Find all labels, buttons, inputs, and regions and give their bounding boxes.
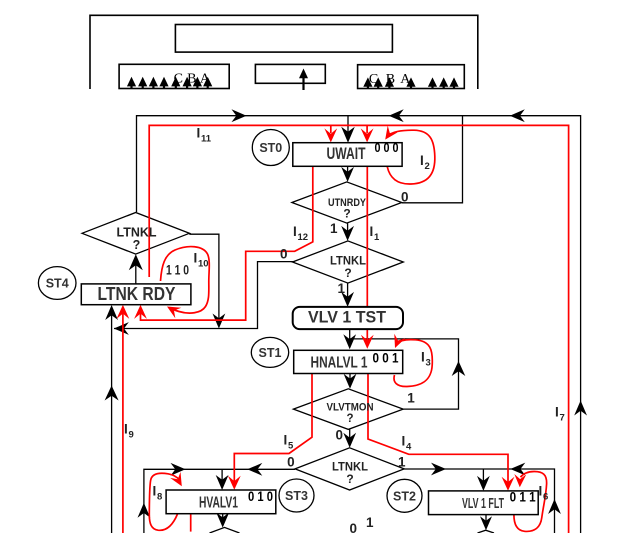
wire VLV1FLT to bottom diamond xyxy=(485,515,487,528)
svg-text:0: 0 xyxy=(280,247,288,262)
svg-text:2: 2 xyxy=(425,161,430,172)
svg-text:ST0: ST0 xyxy=(259,141,282,155)
wire VLVTMON 0 to LTNKL bottom xyxy=(349,429,351,445)
svg-text:A: A xyxy=(200,72,211,87)
partial diamond bottom-left xyxy=(210,527,240,533)
svg-text:B: B xyxy=(386,72,395,87)
state box HNALVL1 (ST1) xyxy=(294,350,403,373)
svg-text:I: I xyxy=(124,422,128,437)
svg-text:B: B xyxy=(187,72,196,87)
inner top register box xyxy=(175,25,392,53)
input port box right xyxy=(358,65,465,89)
decision LTNKL? (bottom) xyxy=(295,448,404,490)
svg-text:VLV 1 FLT: VLV 1 FLT xyxy=(462,496,504,512)
svg-text:?: ? xyxy=(346,413,353,425)
wire LTNKL2 1-branch to VLV1FLT with right riser xyxy=(404,469,554,533)
svg-text:1: 1 xyxy=(407,391,415,406)
svg-text:I: I xyxy=(421,350,425,365)
red I1 wire UWAIT to HNALVL1 xyxy=(366,145,368,340)
svg-text:HNALVL 1: HNALVL 1 xyxy=(311,355,368,372)
svg-text:12: 12 xyxy=(298,232,309,243)
input arrows right box xyxy=(363,77,458,88)
wire LTNKL2 0-branch to HVALV1 with left riser xyxy=(144,469,295,533)
red stub HVALV1 to bottom diamond xyxy=(190,514,192,532)
svg-text:1: 1 xyxy=(398,455,406,470)
svg-text:0: 0 xyxy=(401,190,409,205)
svg-text:0 0 1: 0 0 1 xyxy=(373,350,399,366)
svg-text:?: ? xyxy=(343,207,350,221)
svg-text:1: 1 xyxy=(374,232,380,243)
state circle ST2 xyxy=(387,479,422,512)
svg-text:0 0 0: 0 0 0 xyxy=(375,140,399,155)
state box UWAIT (ST0) xyxy=(293,143,402,167)
red I5 wire HNALVL1 to HVALV1 xyxy=(234,373,312,483)
svg-text:HVALV1: HVALV1 xyxy=(199,495,238,512)
svg-text:4: 4 xyxy=(406,442,412,453)
svg-text:6: 6 xyxy=(543,492,548,503)
svg-text:0: 0 xyxy=(336,428,344,443)
svg-text:?: ? xyxy=(133,238,141,252)
wire LTNK RDY up to LTNKL left xyxy=(135,257,137,284)
decision LTNKL? (left) xyxy=(82,213,189,255)
wire LTNKL 0-branch to LTNK RDY xyxy=(114,262,295,329)
wire UTNRDY 1 to LTNKL xyxy=(347,223,349,238)
svg-text:I: I xyxy=(284,433,288,448)
state circle ST3 xyxy=(279,479,314,512)
arrow I7 riser xyxy=(574,401,587,416)
svg-text:?: ? xyxy=(344,266,351,280)
wire top return bus with right-side riser xyxy=(137,116,581,533)
decision LTNKL? (center) xyxy=(293,241,404,283)
red I9 riser into LTNK RDY xyxy=(122,310,124,533)
wire UTNRDY 0-branch up to bus xyxy=(402,116,463,203)
input arrows left box xyxy=(127,77,212,89)
svg-text:10: 10 xyxy=(198,259,209,270)
svg-text:7: 7 xyxy=(560,413,565,424)
svg-text:ST2: ST2 xyxy=(393,489,416,503)
svg-text:I: I xyxy=(293,224,297,239)
state circle ST4 xyxy=(38,267,76,300)
partial diamond bottom-right xyxy=(478,530,495,533)
svg-text:8: 8 xyxy=(157,492,162,503)
wire LTNKL 1 to VLV1TST xyxy=(347,283,349,304)
svg-text:9: 9 xyxy=(129,430,134,441)
decision VLVTMON? xyxy=(293,389,403,430)
svg-text:ST4: ST4 xyxy=(46,277,69,291)
red drop into UWAIT (left) xyxy=(330,125,332,133)
svg-text:0: 0 xyxy=(350,521,358,533)
wire HNALVL1 to VLVTMON xyxy=(349,373,351,386)
input port box left xyxy=(119,64,229,88)
svg-text:I: I xyxy=(153,484,157,499)
red I11 wire LTNK RDY to UWAIT xyxy=(149,125,568,533)
svg-text:I: I xyxy=(402,434,406,449)
state box VLV1FLT (ST2) xyxy=(429,491,539,515)
red I4 wire HNALVL1 to VLV1FLT xyxy=(368,373,508,484)
wire LTNKL-left 1-branch down to junction xyxy=(189,234,219,326)
decision UTNRDY? xyxy=(292,182,402,223)
red drop into UWAIT (right, I7) xyxy=(366,125,368,133)
svg-text:VLVTMON: VLVTMON xyxy=(327,402,374,414)
wire bus drop into UWAIT xyxy=(347,116,349,140)
red I2 self-loop on UWAIT xyxy=(387,130,435,184)
wire left riser from bottom into LTNK RDY xyxy=(111,307,113,533)
state circle ST1 xyxy=(251,337,288,367)
middle box arrow xyxy=(299,69,308,91)
svg-text:I: I xyxy=(555,405,559,420)
state circle ST0 xyxy=(252,130,289,166)
red I3 self-loop on HNALVL1 xyxy=(394,340,432,387)
svg-text:LTNK RDY: LTNK RDY xyxy=(98,284,176,304)
outer enclosure xyxy=(90,15,478,89)
svg-text:0: 0 xyxy=(287,455,295,470)
wire VLVTMON 1 loop back to HNALVL1 xyxy=(350,339,459,409)
svg-text:I: I xyxy=(197,126,201,141)
svg-text:1 1 0: 1 1 0 xyxy=(166,262,189,278)
wire HVALV1 to bottom diamond xyxy=(222,514,224,525)
svg-text:?: ? xyxy=(346,472,353,486)
svg-text:A: A xyxy=(400,72,411,87)
svg-text:UWAIT: UWAIT xyxy=(327,145,366,163)
svg-text:I: I xyxy=(370,224,374,239)
svg-text:ST3: ST3 xyxy=(285,489,308,503)
svg-text:5: 5 xyxy=(288,441,294,452)
red I12 wire UWAIT to LTNK RDY xyxy=(141,166,313,320)
svg-text:VLV 1 TST: VLV 1 TST xyxy=(308,307,387,326)
wire VLV1TST to HNALVL1 xyxy=(349,329,351,346)
wire UWAIT to UTNRDY xyxy=(347,166,349,179)
input port box middle xyxy=(255,64,325,83)
svg-text:I: I xyxy=(539,484,543,499)
state box VLV 1 TST xyxy=(293,307,403,329)
state box LTNK RDY (ST4) xyxy=(81,284,191,305)
svg-text:C: C xyxy=(174,72,183,87)
red I8 self-loop on HVALV1 xyxy=(149,473,179,530)
svg-text:ST1: ST1 xyxy=(259,346,282,360)
svg-text:1: 1 xyxy=(330,221,338,236)
svg-text:1: 1 xyxy=(366,515,374,530)
state box HVALV1 (ST3) xyxy=(166,490,276,514)
svg-text:3: 3 xyxy=(426,358,431,369)
svg-text:I: I xyxy=(420,153,424,168)
arrows on top bus xyxy=(232,109,247,122)
svg-text:0 1 0: 0 1 0 xyxy=(248,488,273,504)
svg-text:C: C xyxy=(369,72,378,87)
svg-text:11: 11 xyxy=(201,134,212,145)
red I6 self-loop on VLV1FLT xyxy=(514,471,547,531)
red I10 self-loop on LTNK RDY xyxy=(161,247,210,314)
svg-text:1: 1 xyxy=(337,281,345,296)
svg-text:I: I xyxy=(194,251,198,266)
svg-text:0 1 1: 0 1 1 xyxy=(510,489,536,505)
